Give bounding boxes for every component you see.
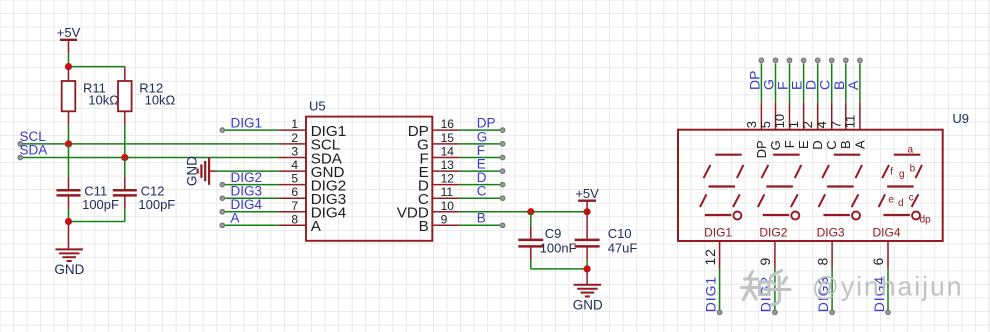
wire B: [459, 223, 504, 227]
U9 top pins (segment pins): [759, 58, 862, 130]
svg-text:3: 3: [744, 121, 759, 128]
svg-text:9: 9: [757, 257, 773, 266]
svg-text:14: 14: [441, 145, 455, 159]
net label D (right): [477, 170, 487, 185]
net label DIG2: [231, 170, 263, 185]
wire C11 to C12 (bottom): [69, 209, 125, 222]
U9 digit names DIG1-DIG4: [704, 226, 901, 240]
wire GND to U5 pin4: [217, 170, 279, 172]
net label SDA: [20, 143, 48, 158]
power +5V (left): [57, 25, 81, 53]
wire R12 to SDA: [124, 125, 126, 158]
ground GND (right): [573, 269, 603, 313]
power +5V (right): [575, 186, 599, 212]
svg-text:2: 2: [291, 131, 298, 145]
svg-text:DIG2: DIG2: [759, 226, 787, 240]
svg-text:4: 4: [814, 121, 829, 128]
svg-text:+5V: +5V: [57, 25, 81, 40]
watermark: [742, 271, 964, 305]
wire DIG4: [220, 210, 278, 214]
svg-text:2: 2: [800, 121, 815, 128]
svg-text:100pF: 100pF: [138, 197, 175, 212]
svg-text:B: B: [838, 140, 853, 149]
IC U5 box: [306, 117, 432, 241]
svg-text:A: A: [311, 218, 322, 235]
wire DIG2: [220, 182, 278, 186]
junction SCL/R11: [65, 140, 72, 147]
svg-text:C10: C10: [608, 226, 632, 241]
U5 pin numbers 16-9: [441, 117, 455, 226]
wire C9 to C10 (bottom): [531, 260, 587, 269]
wire D: [459, 182, 504, 186]
svg-text:47uF: 47uF: [608, 241, 638, 256]
svg-text:GND: GND: [573, 298, 603, 313]
U9 bottom pins (digit commons): [717, 241, 890, 315]
svg-text:DIG1: DIG1: [704, 226, 732, 240]
svg-text:12: 12: [702, 248, 718, 265]
svg-text:6: 6: [870, 257, 886, 266]
svg-text:C: C: [824, 140, 839, 149]
capacitor C11: [57, 177, 120, 212]
U5 pin names (left): [311, 123, 346, 235]
svg-text:+5V: +5V: [575, 186, 599, 201]
svg-text:DP: DP: [754, 140, 769, 158]
svg-text:100nF: 100nF: [540, 241, 577, 256]
capacitor C10: [575, 212, 638, 260]
display U9 box: [678, 130, 943, 241]
wire G: [459, 142, 504, 146]
net label A (left): [231, 211, 240, 226]
U9 top pin numbers: [744, 114, 858, 128]
U9 seven-segment digit 1: [700, 155, 743, 220]
net label DP (right): [477, 116, 496, 131]
net label E (right): [477, 157, 486, 172]
U5 pin numbers 1-8: [291, 117, 298, 226]
junction VDD/+5V: [584, 208, 591, 215]
capacitor C9: [518, 226, 576, 260]
svg-text:7: 7: [291, 199, 298, 213]
svg-text:7: 7: [828, 121, 843, 128]
svg-text:11: 11: [441, 185, 454, 199]
wire DP: [459, 128, 504, 132]
svg-text:DIG3: DIG3: [817, 226, 845, 240]
svg-text:a: a: [908, 144, 914, 155]
svg-text:d: d: [898, 198, 904, 209]
wire A: [220, 223, 278, 227]
svg-text:8: 8: [814, 257, 830, 266]
svg-text:12: 12: [441, 172, 455, 186]
svg-text:10kΩ: 10kΩ: [88, 93, 119, 108]
U5 pin names (right): [397, 123, 429, 235]
svg-text:C: C: [477, 184, 487, 199]
svg-text:6: 6: [291, 185, 298, 199]
svg-text:DIG4: DIG4: [872, 226, 900, 240]
net label DIG3: [231, 184, 263, 199]
svg-text:11: 11: [842, 115, 857, 129]
resistor R12: [118, 67, 176, 125]
svg-text:100pF: 100pF: [82, 197, 119, 212]
svg-text:c: c: [909, 192, 914, 203]
net label B (right): [477, 211, 486, 226]
svg-text:10: 10: [441, 199, 455, 213]
wire +5V to R11/R12: [69, 53, 125, 66]
U9 seven-segment digit 3: [819, 155, 862, 220]
svg-text:G: G: [768, 140, 783, 150]
svg-text:B: B: [477, 211, 486, 226]
capacitor C12: [113, 177, 176, 212]
svg-text:e: e: [888, 194, 894, 205]
svg-text:A: A: [852, 140, 867, 149]
svg-text:1: 1: [291, 117, 298, 131]
junction C11/GND: [65, 218, 72, 225]
svg-text:10kΩ: 10kΩ: [145, 93, 176, 108]
svg-text:DP: DP: [477, 116, 496, 131]
wire F: [459, 155, 504, 159]
svg-text:GND: GND: [184, 156, 199, 186]
svg-text:13: 13: [441, 158, 455, 172]
svg-text:10: 10: [772, 114, 787, 128]
svg-text:3: 3: [291, 145, 298, 159]
net label F (right): [477, 143, 485, 158]
svg-text:B: B: [419, 218, 429, 235]
junction +5V/R11: [65, 63, 72, 70]
svg-text:@yinhaijun: @yinhaijun: [812, 272, 964, 302]
U9 bottom pin numbers: [702, 248, 886, 265]
U9 segment labels a-g dp: [888, 144, 931, 225]
svg-text:5: 5: [758, 121, 773, 128]
wire SDA: [18, 155, 278, 159]
wire SCL to C11: [68, 144, 70, 177]
svg-text:16: 16: [441, 117, 455, 131]
wire VDD down to C9: [530, 212, 532, 227]
svg-text:15: 15: [441, 131, 455, 145]
svg-text:GND: GND: [54, 262, 84, 277]
svg-text:DIG1: DIG1: [231, 116, 263, 131]
U9 top pin names: [754, 140, 868, 158]
wire C: [459, 196, 504, 200]
svg-text:U5: U5: [309, 99, 326, 114]
svg-text:C9: C9: [545, 226, 562, 241]
svg-text:8: 8: [291, 212, 298, 226]
wire VDD to +5V: [459, 211, 587, 213]
svg-text:SDA: SDA: [20, 143, 48, 158]
svg-text:U9: U9: [952, 111, 969, 126]
wire R11 to SCL: [68, 125, 70, 144]
junction C10/GND: [584, 265, 591, 272]
U9 seven-segment digit 2: [758, 155, 801, 220]
svg-text:E: E: [796, 140, 811, 149]
wire SCL: [18, 142, 278, 146]
net label SCL: [20, 129, 47, 144]
svg-text:g: g: [899, 169, 905, 180]
ground GND (U5 pin4, rotated): [184, 156, 216, 186]
svg-text:5: 5: [291, 172, 298, 186]
junction VDD/C9: [527, 208, 534, 215]
wire DIG1: [220, 128, 278, 132]
refdes U9: [952, 111, 969, 126]
net labels DP G F E D C B A (top): [746, 71, 861, 90]
svg-text:b: b: [910, 163, 916, 174]
net label C (right): [477, 184, 487, 199]
svg-text:dp: dp: [920, 215, 932, 226]
junction SDA/R12: [121, 154, 128, 161]
svg-text:9: 9: [441, 212, 448, 226]
svg-text:F: F: [782, 140, 797, 148]
svg-text:4: 4: [291, 158, 298, 172]
svg-text:1: 1: [786, 121, 801, 128]
svg-text:D: D: [810, 140, 825, 149]
wire SDA to C12: [124, 158, 126, 177]
wire E: [459, 169, 504, 173]
U5 pins 1-8 (left stubs): [278, 130, 306, 225]
svg-text:A: A: [231, 211, 240, 226]
resistor R11: [62, 67, 120, 125]
svg-text:A: A: [845, 80, 861, 90]
wire DIG3: [220, 196, 278, 200]
net label DIG1: [231, 116, 263, 131]
svg-text:DIG1: DIG1: [702, 276, 718, 312]
net labels DIG1-DIG4 (bottom): [702, 276, 886, 312]
U5 pins 16-9 (right stubs): [432, 130, 459, 225]
net label DIG4: [231, 197, 263, 212]
refdes U5: [309, 99, 326, 114]
net label G (right): [477, 129, 488, 144]
svg-text:f: f: [890, 166, 893, 177]
ground GND (left): [54, 222, 84, 277]
U9 seven-segment digit 4: [879, 155, 922, 220]
